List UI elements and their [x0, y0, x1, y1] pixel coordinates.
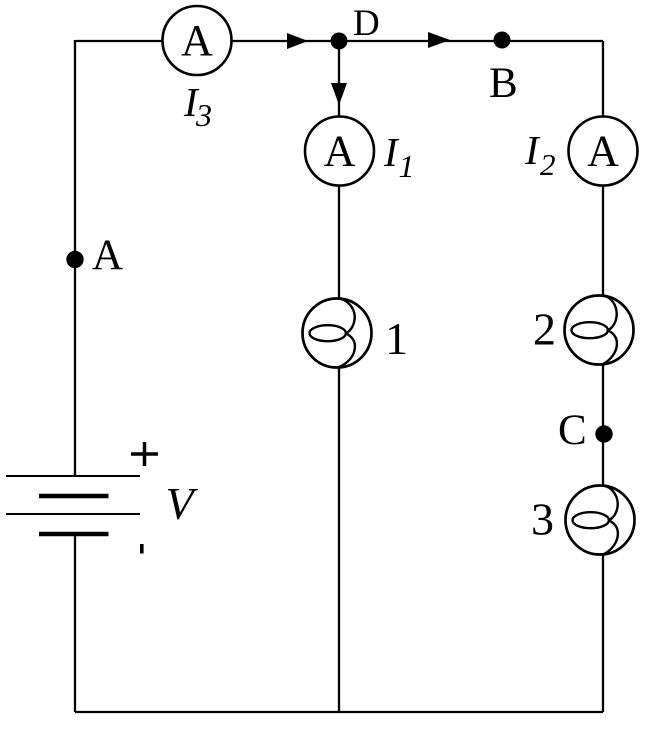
- current arrow down from node D into ammeter I1: [331, 83, 347, 105]
- svg-text:2: 2: [533, 304, 556, 355]
- battery V plate 1 (long thin, +): [6, 475, 140, 477]
- svg-text:A: A: [587, 127, 619, 176]
- battery + terminal sign: [131, 442, 158, 466]
- battery - terminal mark: [140, 544, 144, 554]
- wire right vertical branch (B corner to bottom): [602, 41, 604, 712]
- svg-text:V: V: [166, 478, 199, 529]
- label I2: [524, 127, 556, 182]
- svg-text:D: D: [353, 3, 380, 44]
- node D junction dot: [331, 33, 348, 50]
- battery V plate 3 (long thin): [6, 513, 140, 515]
- battery V plate 2 (short thick): [39, 494, 109, 499]
- svg-text:I: I: [524, 127, 541, 173]
- wire left vertical upper (battery + to top): [74, 40, 76, 476]
- svg-text:I: I: [383, 129, 400, 175]
- wire middle vertical branch (D to bottom): [338, 41, 340, 712]
- current arrow on top wire toward node B: [428, 32, 450, 48]
- ammeter U1 (reads I1): [305, 117, 374, 186]
- label I1: [383, 129, 415, 184]
- ammeter U2 (reads I2): [569, 117, 638, 186]
- label I3: [183, 79, 212, 133]
- svg-text:C: C: [558, 407, 587, 454]
- svg-text:A: A: [92, 232, 123, 279]
- label B: [489, 60, 518, 107]
- svg-text:1: 1: [399, 148, 415, 184]
- wire bottom horizontal: [75, 711, 603, 713]
- ammeter U3 (reads I3): [163, 6, 232, 75]
- label D: [353, 3, 380, 44]
- svg-text:1: 1: [385, 313, 408, 364]
- label 2 (lamp 2): [533, 304, 556, 355]
- svg-text:A: A: [181, 16, 213, 65]
- current arrow on top wire into node D: [287, 33, 308, 49]
- label C: [558, 407, 587, 454]
- label 3 (lamp 3): [531, 494, 554, 545]
- battery V plate 4 (short thick, -): [39, 532, 109, 537]
- svg-text:B: B: [489, 60, 518, 107]
- lamp 2: [565, 296, 634, 365]
- node C dot: [595, 425, 612, 442]
- svg-text:A: A: [324, 127, 356, 176]
- svg-text:3: 3: [195, 97, 212, 133]
- wire top horizontal from battery branch to right branch: [75, 40, 603, 42]
- label V (battery voltage): [166, 478, 199, 529]
- node B dot: [494, 32, 511, 49]
- wire left vertical lower (battery - to bottom): [74, 534, 76, 712]
- node A dot: [66, 251, 83, 268]
- lamp 1: [303, 299, 372, 368]
- label A: [92, 232, 123, 279]
- label 1 (lamp 1): [385, 313, 408, 364]
- svg-text:2: 2: [540, 147, 556, 182]
- svg-text:3: 3: [531, 494, 554, 545]
- lamp 3: [566, 486, 635, 555]
